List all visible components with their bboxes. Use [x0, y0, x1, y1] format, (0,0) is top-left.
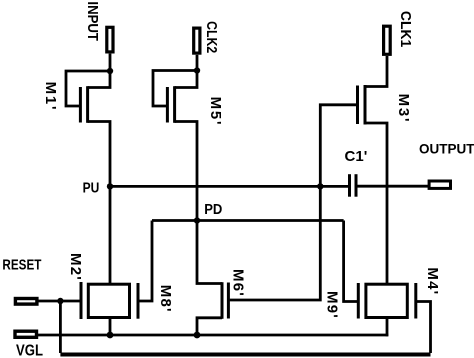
svg-text:CLK1: CLK1 — [397, 11, 414, 47]
svg-text:M6': M6' — [230, 269, 247, 297]
svg-text:M3': M3' — [395, 94, 412, 124]
svg-text:C1': C1' — [345, 148, 368, 165]
svg-text:M5': M5' — [207, 97, 224, 127]
svg-text:PU: PU — [83, 179, 100, 196]
svg-text:M2': M2' — [67, 253, 84, 281]
svg-text:M1': M1' — [42, 82, 59, 112]
svg-text:M9': M9' — [324, 291, 341, 319]
svg-text:PD: PD — [204, 200, 222, 217]
svg-text:INPUT: INPUT — [85, 1, 102, 41]
svg-text:VGL: VGL — [16, 342, 43, 358]
svg-text:CLK2: CLK2 — [204, 21, 220, 53]
svg-text:RESET: RESET — [2, 256, 42, 273]
svg-text:M4': M4' — [424, 267, 441, 295]
svg-text:OUTPUT: OUTPUT — [419, 142, 474, 157]
svg-text:M8': M8' — [157, 285, 174, 313]
